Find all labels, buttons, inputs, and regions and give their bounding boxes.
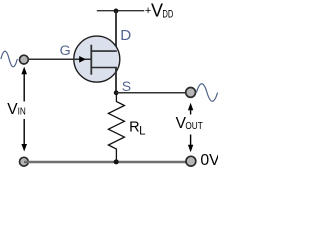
VOUT dimension line upper bbox=[190, 109, 192, 115]
node: drain junction dot bbox=[114, 9, 119, 14]
svg-text:IN: IN bbox=[18, 106, 26, 118]
wire: +VDD top rail bbox=[97, 10, 144, 12]
node: resistor bottom junction dot bbox=[114, 159, 119, 164]
node: source junction dot bbox=[114, 90, 119, 95]
transistor Q1 drain lead bbox=[91, 50, 117, 52]
svg-text:DD: DD bbox=[162, 9, 173, 21]
VIN dimension arrow down bbox=[21, 144, 27, 152]
terminal: VIN top bbox=[20, 55, 29, 64]
terminal: VIN bottom bbox=[20, 157, 29, 166]
wire: source to VOUT terminal bbox=[116, 92, 186, 94]
svg-text:S: S bbox=[122, 78, 131, 94]
wire: drain vertical bbox=[115, 11, 117, 52]
VIN dimension line upper bbox=[23, 73, 25, 102]
wire: bottom 0V rail bbox=[24, 161, 191, 164]
VIN dimension arrow up bbox=[21, 67, 27, 75]
svg-text:G: G bbox=[60, 43, 71, 59]
svg-text:V: V bbox=[151, 1, 163, 21]
wire: gate from input terminal bbox=[24, 58, 91, 60]
svg-text:D: D bbox=[120, 27, 131, 44]
transistor Q1 channel bar bbox=[90, 45, 92, 75]
output sine wave symbol bbox=[196, 84, 217, 102]
VOUT dimension arrow up bbox=[188, 103, 193, 110]
resistor RL bbox=[108, 94, 124, 161]
svg-text:OUT: OUT bbox=[185, 120, 203, 132]
transistor Q1 gate arrowhead bbox=[79, 56, 86, 63]
wire: source vertical bbox=[115, 68, 117, 94]
transistor Q1 body circle bbox=[74, 36, 120, 82]
terminal: VOUT top bbox=[186, 88, 196, 98]
svg-text:RL: RL bbox=[129, 119, 146, 137]
VOUT dimension line lower bbox=[190, 135, 192, 146]
VIN dimension line lower bbox=[23, 119, 25, 146]
svg-text:0V: 0V bbox=[200, 152, 218, 169]
terminal: 0V bbox=[186, 156, 196, 166]
VOUT dimension arrow down bbox=[188, 145, 193, 153]
transistor Q1 source lead bbox=[91, 67, 117, 69]
input sine wave symbol bbox=[1, 51, 17, 67]
svg-text:V: V bbox=[7, 101, 18, 118]
